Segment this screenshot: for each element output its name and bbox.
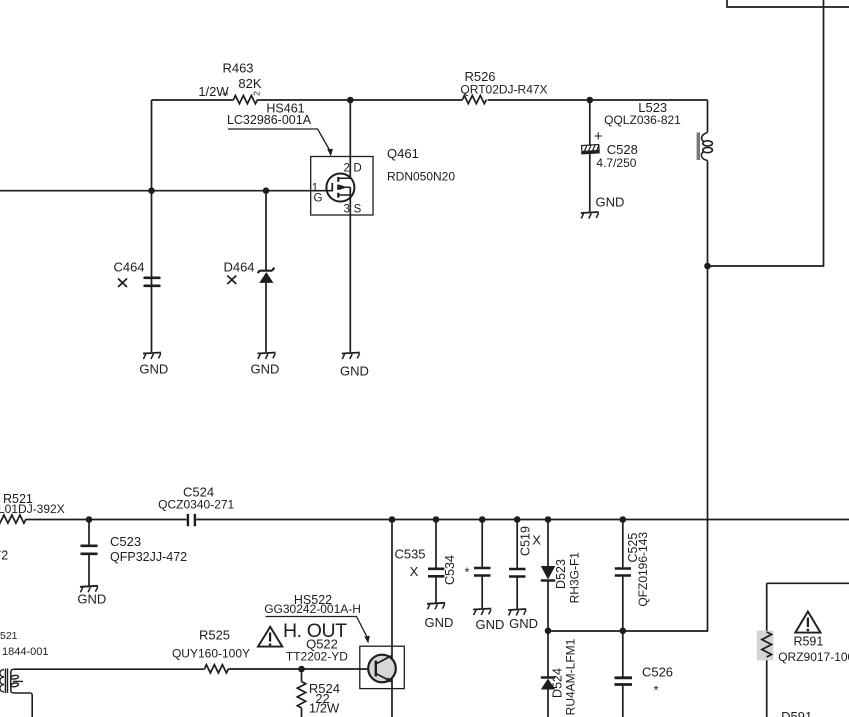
svg-text:*: * xyxy=(464,565,469,580)
svg-text:GND: GND xyxy=(340,364,369,379)
svg-text:1/2W: 1/2W xyxy=(309,701,340,716)
svg-text:QQLZ036-821: QQLZ036-821 xyxy=(604,113,681,127)
svg-text:D524: D524 xyxy=(551,668,565,698)
capacitor C525 xyxy=(622,520,624,631)
capacitor C528 wire xyxy=(589,100,591,212)
svg-text:1844-001: 1844-001 xyxy=(2,646,49,658)
svg-text:QRT02DJ-R47X: QRT02DJ-R47X xyxy=(460,82,547,96)
svg-text:GND: GND xyxy=(139,362,168,377)
svg-text:C464: C464 xyxy=(113,260,144,275)
wire leader HS522 xyxy=(266,617,367,637)
svg-text:LC32986-001A: LC32986-001A xyxy=(227,113,312,127)
ground C534 xyxy=(473,609,491,616)
capacitor C523 xyxy=(88,520,90,586)
capacitor C534 xyxy=(481,520,483,609)
svg-text:Q461: Q461 xyxy=(387,146,419,161)
resistor R463 xyxy=(234,96,258,104)
svg-text:D464: D464 xyxy=(223,260,254,275)
capacitor C524 xyxy=(188,514,195,526)
wire leader HS461 xyxy=(228,129,330,150)
svg-text:C528: C528 xyxy=(607,142,638,157)
svg-text:L01DJ-392X: L01DJ-392X xyxy=(0,502,65,516)
wire vertical left xyxy=(151,100,153,352)
warning triangle R591 xyxy=(795,612,820,633)
svg-text:GND: GND xyxy=(251,362,280,377)
node junction (548,519.5) xyxy=(545,516,552,523)
svg-text:3: 3 xyxy=(343,204,349,216)
svg-text:+: + xyxy=(594,128,603,145)
svg-text:GND: GND xyxy=(476,617,505,632)
svg-text:X: X xyxy=(532,533,541,548)
svg-text:C535: C535 xyxy=(394,546,425,561)
svg-text:GND: GND xyxy=(425,615,454,630)
node junction (436,519.5) xyxy=(433,516,440,523)
svg-text:QCZ0340-271: QCZ0340-271 xyxy=(158,497,234,511)
diode D524 xyxy=(547,631,549,717)
transistor Q522 box xyxy=(360,646,405,688)
node junction (392,519.5) xyxy=(389,516,396,523)
node junction (89,519.5) xyxy=(86,516,93,523)
svg-text:1: 1 xyxy=(221,92,230,96)
resistor R591 xyxy=(757,631,774,661)
capacitor C535 xyxy=(435,520,437,603)
wire top-right box corner xyxy=(727,0,849,7)
capacitor C528 xyxy=(581,144,600,153)
inductor L523 xyxy=(707,100,709,133)
capacitor C464 xyxy=(144,278,161,286)
svg-text:R591: R591 xyxy=(793,635,823,649)
diode D464 zener xyxy=(265,191,267,352)
node junction (301.5,669) xyxy=(298,666,305,673)
node junction (266,190.7) xyxy=(263,187,270,194)
wire base rail xyxy=(15,668,369,670)
svg-text:QFP32JJ-472: QFP32JJ-472 xyxy=(110,550,187,564)
svg-text:2: 2 xyxy=(343,163,349,175)
svg-text:GND: GND xyxy=(596,195,625,210)
wire main rail xyxy=(26,519,849,521)
transistor Q522 xyxy=(368,655,396,683)
wire to right xyxy=(708,0,824,266)
node junction (548,630.8) xyxy=(545,628,552,635)
resistor R521 xyxy=(0,515,26,523)
svg-text:C526: C526 xyxy=(642,665,673,680)
svg-text:*: * xyxy=(653,683,658,698)
svg-text:QRZ9017-100Y: QRZ9017-100Y xyxy=(778,650,849,664)
svg-text:GND: GND xyxy=(77,592,106,607)
resistor R524 xyxy=(301,669,303,717)
ground Q461 source xyxy=(342,353,360,360)
wire drain xyxy=(349,100,351,178)
svg-text:S: S xyxy=(354,204,362,216)
warning triangle H.OUT xyxy=(258,627,282,647)
capacitor C526 xyxy=(622,631,624,717)
svg-text:D591: D591 xyxy=(781,709,812,717)
svg-text:D523: D523 xyxy=(554,559,568,589)
svg-text:GG30242-001A-H: GG30242-001A-H xyxy=(264,602,361,616)
svg-text:R525: R525 xyxy=(199,628,230,643)
capacitor C519 xyxy=(516,520,518,609)
svg-text:RU4AM-LFM1: RU4AM-LFM1 xyxy=(564,638,578,715)
svg-text:RH3G-F1: RH3G-F1 xyxy=(567,552,581,604)
svg-text:GND: GND xyxy=(509,616,538,631)
ground C464 xyxy=(143,353,161,360)
svg-text:C534: C534 xyxy=(443,555,457,585)
svg-text:QUY160-100Y: QUY160-100Y xyxy=(172,646,250,660)
svg-text:4.7/250: 4.7/250 xyxy=(596,156,636,170)
svg-text:X: X xyxy=(410,564,419,579)
wire gate horizontal xyxy=(0,190,327,192)
svg-text:C523: C523 xyxy=(110,534,141,549)
ground C523 xyxy=(80,586,98,593)
svg-text:D: D xyxy=(353,163,361,175)
ground C519 xyxy=(508,609,526,616)
box (right block) xyxy=(767,583,849,717)
node junction (707.5,266) xyxy=(704,263,711,270)
svg-text:2: 2 xyxy=(251,91,261,96)
svg-text:521: 521 xyxy=(0,630,18,642)
svg-text:RDN050N20: RDN050N20 xyxy=(387,169,455,183)
MOSFET Q461 box xyxy=(311,157,373,216)
MOSFET Q461 xyxy=(326,174,354,202)
svg-text:82K: 82K xyxy=(238,76,261,91)
node junction (151.5,190.7) xyxy=(148,187,155,194)
diode D523 xyxy=(547,520,549,631)
wire source xyxy=(349,187,351,352)
node junction (517.2,519.5) xyxy=(514,516,521,523)
node junction (589.8,100) xyxy=(587,97,594,104)
resistor R525 xyxy=(205,665,229,673)
svg-text:R463: R463 xyxy=(222,61,253,76)
ground C528 xyxy=(581,212,599,219)
svg-text:TT2202-YD: TT2202-YD xyxy=(286,650,348,664)
wire collector Q522 xyxy=(391,520,393,717)
node junction (482.2,519.5) xyxy=(479,516,486,523)
node junction (350.3,100) xyxy=(347,97,354,104)
svg-text:G: G xyxy=(314,193,323,205)
svg-text:C519: C519 xyxy=(519,526,533,556)
ground C535 xyxy=(427,603,445,610)
ground D464 xyxy=(258,353,276,360)
wire xyxy=(152,99,708,101)
svg-text:472: 472 xyxy=(0,549,8,563)
svg-text:QFZ0196-143: QFZ0196-143 xyxy=(636,532,650,607)
resistor R526 xyxy=(462,96,486,104)
node junction (622.8,519.5) xyxy=(620,516,627,523)
node junction (622.8,630.8) xyxy=(620,628,627,635)
